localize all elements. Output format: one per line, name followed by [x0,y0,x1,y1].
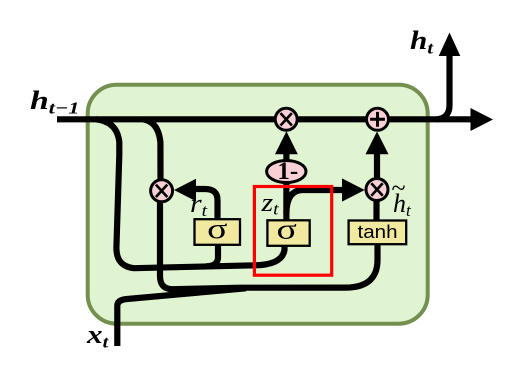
wire: x_t input along bottom line 2 into tanh [117,288,246,346]
svg-text:ht−1: ht−1 [30,86,79,118]
wire: branch up to h_t [436,33,460,120]
label: h_{t-1} [30,86,79,118]
highlight: red rectangle around z gate [254,187,331,276]
GRU cell body [88,85,428,324]
label: h_t [410,26,434,58]
wire: sigma_r input stub [206,245,218,266]
node: 1- ellipse [267,158,306,185]
svg-text:~: ~ [392,174,406,203]
svg-text:tanh: tanh [358,221,398,242]
node: reset multiply circle [151,180,173,202]
node: update multiply circle on main line [275,108,297,130]
node: plus circle on main line [367,108,389,130]
node: candidate multiply circle [366,179,388,201]
svg-text:xt: xt [86,320,109,352]
label: x_t [86,320,109,352]
svg-text:1-: 1- [277,158,298,185]
wire: output arrowhead right [471,108,494,131]
wire: tanh output up to candidate multiply [373,200,379,221]
svg-text:σ: σ [207,213,227,245]
box: tanh [349,221,407,245]
svg-text:σ: σ [276,214,296,246]
wire: main h line [57,116,471,122]
wire: reset product down to bottom line 2 [160,199,378,289]
box: sigma_z gate [267,214,309,246]
svg-text:ht: ht [410,26,434,58]
wire: h drop into reset multiply [143,119,161,182]
label: r_t [190,190,208,220]
wire: z branch right to candidate multiply with arrow [286,178,364,214]
wire: candidate multiply up to plus with arrow [366,132,389,179]
wire: h drop left into bottom line 1 feeding gates [96,119,285,268]
wire: z line up through 1- to update multiply [275,131,298,246]
wire: sigma_r output to reset multiply with arrow [174,179,218,220]
label: h~_t candidate [392,174,413,221]
box: sigma_r gate [195,213,241,245]
label: z_t [260,189,279,218]
